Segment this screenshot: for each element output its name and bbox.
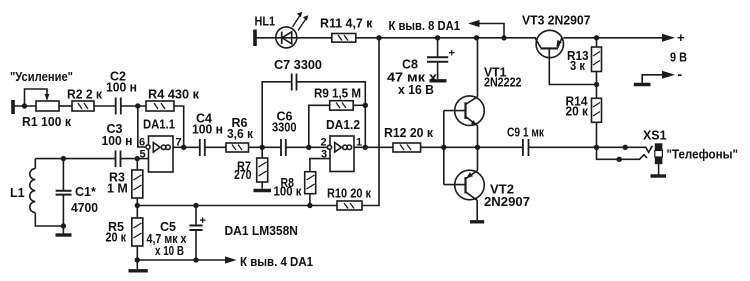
svg-text:R1 100 к: R1 100 к xyxy=(22,115,72,129)
capacitor C1 xyxy=(62,159,64,191)
node upper contact xyxy=(623,145,628,150)
svg-text:7: 7 xyxy=(176,137,182,149)
svg-text:-: - xyxy=(678,66,683,82)
wire row D : L1 to pin 5 xyxy=(35,158,115,160)
resistor R11 xyxy=(332,34,356,43)
svg-text:1: 1 xyxy=(356,137,362,149)
wire pin 3 to R8 xyxy=(310,159,330,172)
svg-text:100 н: 100 н xyxy=(192,123,223,137)
wire C9 to XS1 xyxy=(529,146,625,148)
svg-text:20 к: 20 к xyxy=(566,105,589,119)
capacitor C2 xyxy=(116,98,121,115)
wire R10 to top rail xyxy=(362,38,379,206)
potentiometer R1 xyxy=(36,101,59,111)
node pin5 junction xyxy=(135,156,140,161)
wire DA1.1 out to C4 xyxy=(173,146,200,148)
svg-text:+: + xyxy=(449,48,455,60)
svg-text:К выв. 8 DA1: К выв. 8 DA1 xyxy=(389,19,461,33)
svg-text:3,6 к: 3,6 к xyxy=(227,127,254,141)
input terminal xyxy=(11,100,15,114)
svg-text:4700: 4700 xyxy=(71,201,98,215)
node rail-C8 xyxy=(435,35,440,40)
svg-text:100 к: 100 к xyxy=(274,185,303,199)
node rail-VT1 xyxy=(474,35,479,40)
svg-text:5: 5 xyxy=(140,149,146,161)
node R9-C7 xyxy=(363,103,368,108)
svg-text:2N2222: 2N2222 xyxy=(484,76,522,90)
resistor R5 xyxy=(136,206,138,219)
node A (R6-C6-C7-R7) xyxy=(260,145,265,150)
wire C6 to pin 2 xyxy=(286,146,327,148)
wire R2 to C2 xyxy=(94,105,115,107)
capacitor C3 xyxy=(116,151,121,168)
resistor R9 xyxy=(330,101,354,110)
resistor R7 xyxy=(261,147,263,158)
svg-text:+: + xyxy=(200,215,206,227)
svg-text:XS1: XS1 xyxy=(643,129,667,143)
resistor R2 xyxy=(72,101,94,111)
svg-text:C9 1 мк: C9 1 мк xyxy=(507,126,545,140)
LED HL1 xyxy=(276,27,297,48)
node base rail xyxy=(441,145,446,150)
svg-text:L1: L1 xyxy=(10,186,25,200)
svg-text:100 н: 100 н xyxy=(102,134,133,148)
jack XS1 xyxy=(655,143,663,150)
node rail-tap8 xyxy=(501,35,506,40)
node DA1.2 output xyxy=(363,145,368,150)
node C1 bottom xyxy=(61,223,66,228)
HL1 light arrows xyxy=(293,15,307,31)
wire C7 to output node xyxy=(297,82,365,148)
wire R1 to R2 xyxy=(59,105,72,107)
svg-text:C1*: C1* xyxy=(75,185,96,199)
resistor R14 xyxy=(596,85,598,99)
svg-text:270: 270 xyxy=(234,168,252,182)
wire terminal to LED xyxy=(256,37,332,39)
node lower contact xyxy=(617,157,622,162)
resistor R6 xyxy=(226,143,249,152)
wire VT1 emitter to node xyxy=(477,126,479,171)
op-amp DA1.2 xyxy=(330,136,354,172)
svg-text:R11 4,7 к: R11 4,7 к xyxy=(320,17,373,31)
svg-text:2N2907: 2N2907 xyxy=(484,195,530,209)
node R14 bottom xyxy=(594,145,599,150)
wire bias rail xyxy=(137,205,337,207)
wire R9 left leg xyxy=(309,105,330,147)
capacitor C5 xyxy=(195,206,197,226)
wire tap to pin8 arrow xyxy=(479,24,504,38)
node input junction xyxy=(22,103,27,108)
resistor R12 xyxy=(393,143,421,152)
svg-text:3 к: 3 к xyxy=(570,59,586,73)
capacitor C7 xyxy=(292,74,297,91)
wire DA1.2 out xyxy=(354,146,393,148)
svg-text:R9 1,5 М: R9 1,5 М xyxy=(314,87,361,101)
svg-text:C7 3300: C7 3300 xyxy=(274,58,322,72)
ground under C1 xyxy=(62,226,64,234)
node R13 top xyxy=(594,35,599,40)
inductor L1 xyxy=(34,159,36,169)
wire R12 to bases xyxy=(421,146,476,148)
node rail-R10 xyxy=(376,35,381,40)
ground under R7 xyxy=(254,189,272,192)
wire R9 right leg xyxy=(353,104,365,106)
ground under VT2 xyxy=(470,220,484,223)
wire input to pot xyxy=(14,105,36,107)
node C5 top xyxy=(193,203,198,208)
svg-text:R12 20 к: R12 20 к xyxy=(384,126,434,140)
ground under R5 xyxy=(136,260,138,269)
wire to lower contact xyxy=(597,147,620,159)
wire bottom to arrow xyxy=(137,259,225,261)
svg-text:C8: C8 xyxy=(402,58,418,72)
node VT3 base xyxy=(594,82,599,87)
resistor R3 xyxy=(136,159,138,170)
svg-text:К выв. 4 DA1: К выв. 4 DA1 xyxy=(240,255,313,269)
resistor R13 xyxy=(596,38,598,47)
ground under XS1 xyxy=(651,174,667,177)
svg-text:2: 2 xyxy=(321,137,327,149)
node R5 bottom xyxy=(135,257,140,262)
svg-text:DA1 LM358N: DA1 LM358N xyxy=(225,224,299,238)
wire C4 to R6 xyxy=(205,146,226,148)
wire C7 branch xyxy=(262,82,291,148)
svg-text:HL1: HL1 xyxy=(255,15,276,29)
transistor VT2 xyxy=(455,170,485,200)
svg-text:"Телефоны": "Телефоны" xyxy=(667,148,739,162)
node C2-R4 junction xyxy=(135,103,140,108)
minus terminal xyxy=(642,75,662,83)
svg-text:3300: 3300 xyxy=(272,121,297,135)
capacitor C9 xyxy=(523,139,529,156)
wire top rail xyxy=(356,37,537,39)
node R8 bottom xyxy=(307,203,312,208)
svg-text:DA1.1: DA1.1 xyxy=(143,118,175,132)
resistor R10 xyxy=(337,201,362,210)
wire R4 to DA1.1 output xyxy=(174,106,184,148)
node C5 bottom xyxy=(193,257,198,262)
svg-text:DA1.2: DA1.2 xyxy=(326,118,360,132)
svg-text:100 н: 100 н xyxy=(106,81,137,95)
lower contact xyxy=(619,155,647,160)
wire R1 wiper link xyxy=(25,89,48,105)
capacitor C4 xyxy=(200,139,205,156)
svg-text:R10 20 к: R10 20 к xyxy=(327,187,372,201)
wire VT2 collector to ground xyxy=(476,200,478,220)
op-amp DA1.1 xyxy=(149,136,174,172)
node R3-R5 xyxy=(135,203,140,208)
svg-text:R2 2 к: R2 2 к xyxy=(67,88,103,102)
svg-text:+: + xyxy=(677,30,685,45)
node emitters xyxy=(475,145,480,150)
wire jack sleeve to ground xyxy=(658,164,660,174)
svg-text:1 М: 1 М xyxy=(107,182,128,196)
wire C2 node to pin 6 xyxy=(138,106,147,147)
wire VT1-VT2 base rail xyxy=(443,111,445,185)
svg-text:20 к: 20 к xyxy=(106,231,127,245)
wire VT1 collector xyxy=(477,38,479,97)
capacitor C6 xyxy=(281,139,286,156)
resistor R4 xyxy=(146,101,174,111)
HL1 terminal xyxy=(253,30,257,47)
transistor VT1 xyxy=(455,96,485,126)
node pin2 junction xyxy=(306,145,311,150)
svg-text:х 10 В: х 10 В xyxy=(155,244,184,258)
arrow to pin4 DA1 xyxy=(225,256,237,263)
R1 wiper arrow xyxy=(45,94,50,101)
wire VT3 emitter to plus xyxy=(563,37,662,39)
node C1 top xyxy=(61,156,66,161)
transistor VT3 xyxy=(536,30,563,57)
wire R6 to C6 xyxy=(249,146,281,148)
svg-text:VT3 2N2907: VT3 2N2907 xyxy=(522,14,591,28)
resistor R8 xyxy=(305,172,316,194)
arrow to pin8 DA1 xyxy=(468,20,480,27)
capacitor C8 xyxy=(437,38,439,57)
svg-text:"Усиление": "Усиление" xyxy=(10,70,73,84)
svg-text:х 16 В: х 16 В xyxy=(398,83,434,97)
plus terminal arrow xyxy=(662,34,675,42)
upper contact xyxy=(625,146,652,153)
wire C2 to R4 xyxy=(122,105,147,107)
wire C3 to pin 5 xyxy=(121,158,149,160)
wire emitters to C9 xyxy=(478,146,523,148)
wire VT3 base to R13-R14 node xyxy=(549,49,596,85)
svg-text:6: 6 xyxy=(139,137,145,149)
ground under C8 xyxy=(430,79,447,82)
svg-text:3: 3 xyxy=(321,149,327,161)
node DA1.1 output xyxy=(181,145,186,150)
svg-text:9 В: 9 В xyxy=(670,51,687,65)
svg-text:R4 430 к: R4 430 к xyxy=(148,88,200,102)
